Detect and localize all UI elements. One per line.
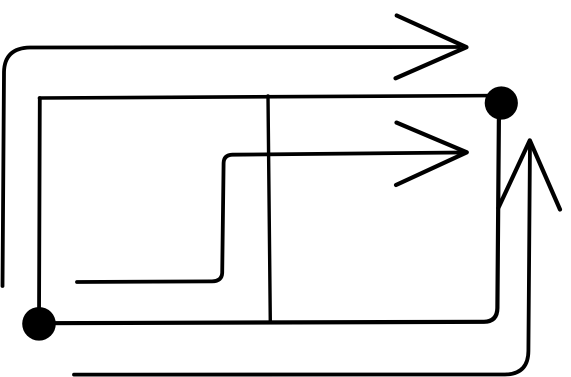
node: top-right junction dot xyxy=(485,86,518,119)
arrowhead of up arrow xyxy=(498,140,560,209)
wire: right vertical from top dot + box bottom edge xyxy=(39,105,499,323)
node: bottom-left junction dot xyxy=(22,307,56,341)
wire: box top edge xyxy=(40,96,505,99)
wire: S-shaped inner line to middle arrow xyxy=(77,153,461,283)
wire: outer feedback loop (left vertical + top horizontal) xyxy=(3,47,460,286)
arrowhead of middle arrow xyxy=(396,123,467,185)
arrowhead of top arrow xyxy=(396,16,467,79)
wire: bottom return line with upward shaft xyxy=(74,141,530,375)
wire: box left edge xyxy=(37,98,42,323)
wire: middle vertical divider xyxy=(268,96,270,322)
